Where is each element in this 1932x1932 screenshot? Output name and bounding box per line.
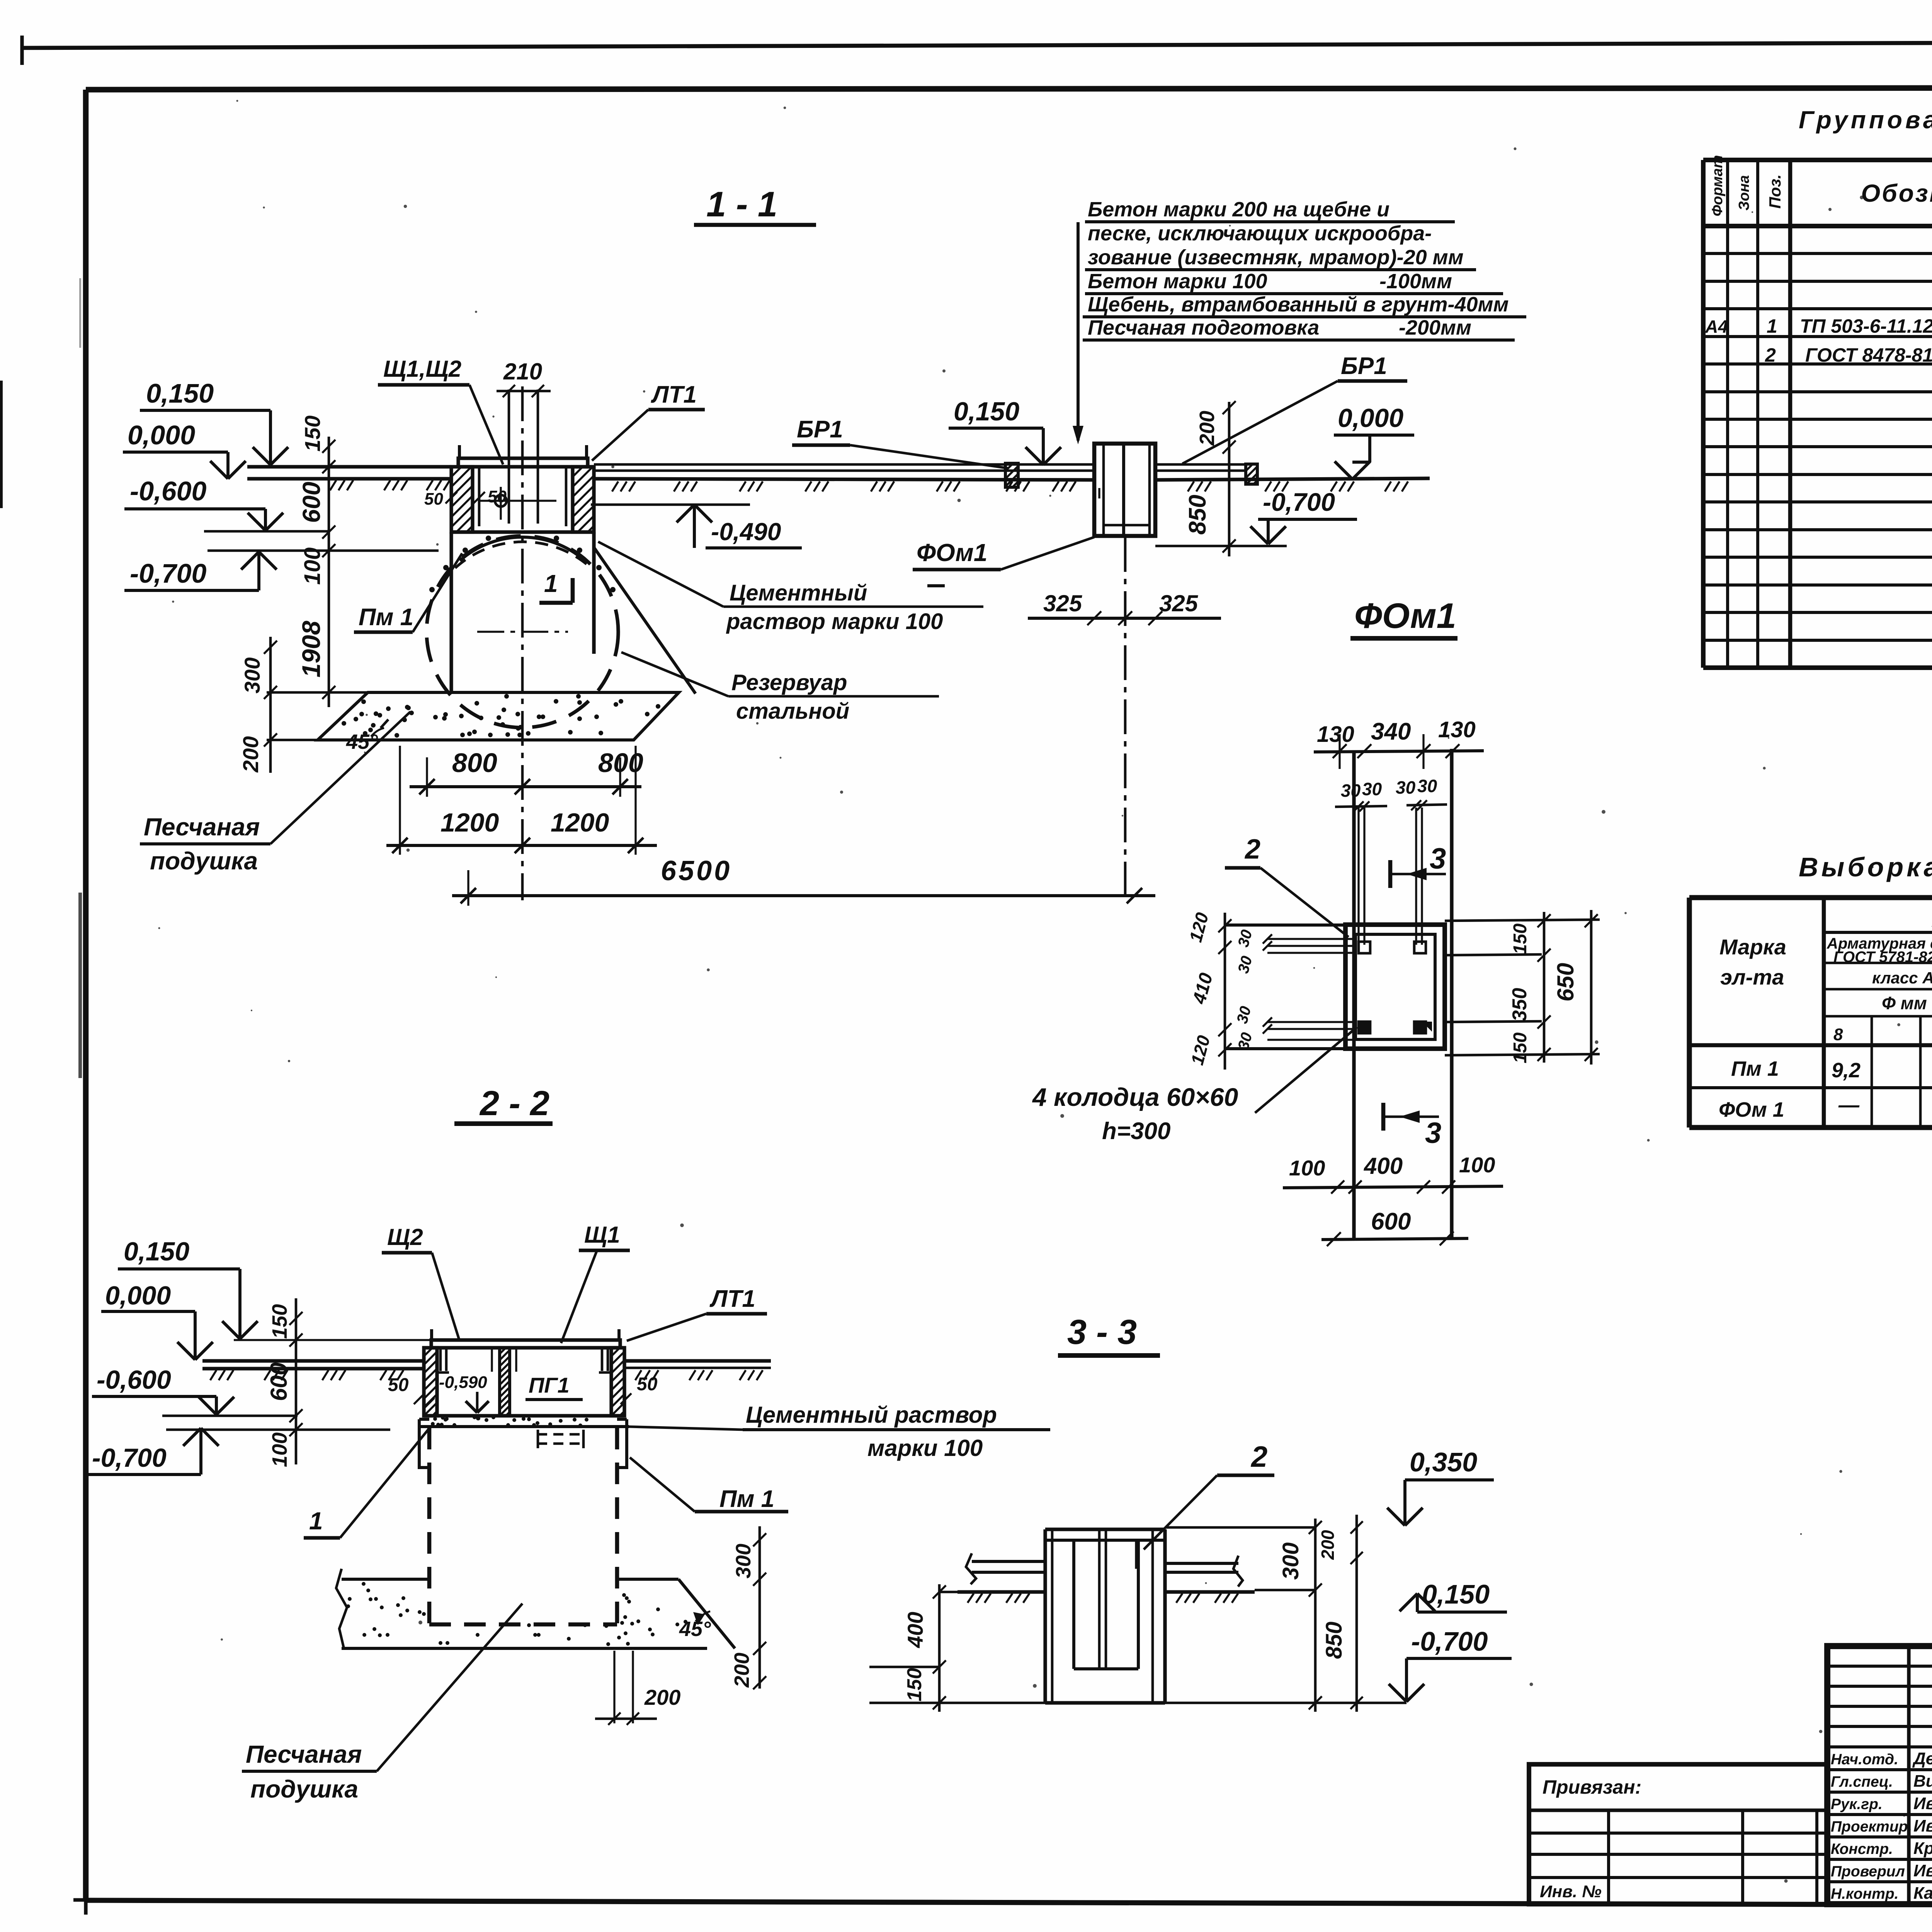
- svg-text:600: 600: [1371, 1208, 1411, 1235]
- svg-text:ТП 503-6-11.12.88: ТП 503-6-11.12.88: [1800, 315, 1932, 337]
- svg-text:6500: 6500: [661, 855, 732, 886]
- svg-text:4 колодца 60×60: 4 колодца 60×60: [1032, 1083, 1238, 1111]
- svg-text:ПГ1: ПГ1: [529, 1373, 570, 1397]
- svg-text:БР1: БР1: [797, 416, 843, 443]
- svg-text:650: 650: [1553, 963, 1578, 1002]
- svg-text:Иванова: Иванова: [1913, 1794, 1932, 1813]
- svg-text:200: 200: [730, 1653, 753, 1688]
- svg-text:150: 150: [903, 1668, 926, 1702]
- svg-text:100: 100: [1459, 1153, 1495, 1177]
- svg-text:600: 600: [298, 482, 325, 523]
- svg-text:0,000: 0,000: [105, 1281, 171, 1310]
- svg-text:ФОм1: ФОм1: [1354, 596, 1456, 636]
- svg-text:30: 30: [1396, 777, 1416, 798]
- svg-text:3: 3: [1425, 1117, 1441, 1150]
- svg-text:ФОм1: ФОм1: [917, 539, 987, 566]
- svg-text:100: 100: [1289, 1156, 1325, 1180]
- svg-text:1: 1: [1767, 315, 1777, 337]
- svg-text:130: 130: [1438, 717, 1476, 742]
- svg-text:0,000: 0,000: [1338, 403, 1403, 433]
- svg-text:210: 210: [503, 359, 542, 384]
- svg-text:подушка: подушка: [150, 847, 258, 875]
- svg-text:класс АI: класс АI: [1872, 969, 1932, 987]
- svg-text:130: 130: [1317, 722, 1354, 747]
- svg-text:зование (известняк, мрамор)-20: зование (известняк, мрамор)-20 мм: [1088, 246, 1464, 269]
- svg-text:150: 150: [1510, 923, 1531, 954]
- svg-text:-0,590: -0,590: [439, 1373, 487, 1392]
- svg-text:2 - 2: 2 - 2: [479, 1084, 549, 1123]
- svg-text:300: 300: [1278, 1543, 1303, 1580]
- svg-text:850: 850: [1321, 1622, 1347, 1659]
- svg-text:1200: 1200: [440, 808, 499, 837]
- svg-text:Обозначение: Обозначение: [1861, 179, 1932, 207]
- svg-text:1 - 1: 1 - 1: [706, 185, 777, 224]
- svg-text:1908: 1908: [297, 621, 325, 677]
- svg-text:1: 1: [544, 570, 558, 597]
- svg-text:-0,700: -0,700: [92, 1443, 167, 1473]
- svg-text:Пм 1: Пм 1: [1731, 1057, 1779, 1080]
- svg-text:300: 300: [240, 657, 264, 693]
- svg-text:Песчаная подготовка: Песчаная подготовка: [1088, 316, 1319, 339]
- svg-text:30: 30: [1417, 776, 1437, 796]
- svg-text:-0,700: -0,700: [130, 558, 207, 588]
- svg-text:Песчаная: Песчаная: [144, 813, 260, 841]
- svg-text:ФОм 1: ФОм 1: [1719, 1098, 1784, 1121]
- svg-text:Иванова: Иванова: [1913, 1861, 1932, 1880]
- svg-text:Щебень, втрамбованный в грунт-: Щебень, втрамбованный в грунт-40мм: [1088, 293, 1509, 316]
- svg-text:9,2: 9,2: [1832, 1059, 1861, 1082]
- svg-text:0,350: 0,350: [1410, 1447, 1477, 1477]
- svg-text:-100мм: -100мм: [1379, 270, 1452, 293]
- svg-text:325: 325: [1159, 590, 1199, 616]
- svg-text:подушка: подушка: [250, 1775, 358, 1803]
- svg-text:Цементный: Цементный: [730, 580, 867, 605]
- svg-text:Иванова: Иванова: [1913, 1816, 1932, 1835]
- svg-text:А4: А4: [1705, 316, 1728, 337]
- svg-text:-0,700: -0,700: [1263, 488, 1335, 516]
- svg-text:Формат: Формат: [1709, 155, 1726, 216]
- svg-text:Зона: Зона: [1736, 175, 1752, 211]
- svg-text:2: 2: [1250, 1440, 1267, 1473]
- svg-text:340: 340: [1371, 718, 1411, 745]
- svg-text:150: 150: [268, 1304, 291, 1339]
- svg-text:100: 100: [300, 548, 325, 585]
- svg-text:150: 150: [300, 415, 325, 451]
- svg-text:Привязан:: Привязан:: [1543, 1776, 1641, 1798]
- svg-text:850: 850: [1184, 495, 1211, 534]
- svg-text:Пм 1: Пм 1: [359, 604, 413, 631]
- svg-text:800: 800: [452, 748, 497, 778]
- svg-text:300: 300: [732, 1544, 755, 1578]
- svg-text:Вишняков: Вишняков: [1913, 1772, 1932, 1791]
- svg-text:Марка: Марка: [1719, 935, 1786, 959]
- svg-text:Щ1,Щ2: Щ1,Щ2: [383, 356, 461, 382]
- svg-text:стальной: стальной: [736, 699, 849, 724]
- svg-text:ЛТ1: ЛТ1: [709, 1286, 755, 1312]
- svg-text:0,000: 0,000: [128, 420, 195, 450]
- svg-text:Групповая спецификация для: Групповая спецификация для монолитных эл…: [1799, 106, 1932, 134]
- svg-text:Кадовб: Кадовб: [1913, 1884, 1932, 1903]
- svg-text:Рук.гр.: Рук.гр.: [1831, 1796, 1883, 1813]
- svg-text:50: 50: [637, 1374, 658, 1395]
- svg-text:0,150: 0,150: [954, 397, 1019, 426]
- svg-text:ГОСТ 5781-82: ГОСТ 5781-82: [1833, 949, 1932, 966]
- svg-text:Поз.: Поз.: [1766, 174, 1784, 209]
- svg-text:50: 50: [424, 490, 443, 509]
- svg-text:Цементный раствор: Цементный раствор: [746, 1402, 997, 1428]
- svg-text:h=300: h=300: [1102, 1118, 1171, 1145]
- svg-text:30: 30: [1341, 781, 1361, 801]
- svg-text:3: 3: [1430, 842, 1446, 875]
- svg-text:Инв. №: Инв. №: [1540, 1882, 1602, 1901]
- svg-text:-200мм: -200мм: [1399, 316, 1471, 339]
- svg-text:200: 200: [1196, 411, 1219, 446]
- svg-text:0,150: 0,150: [1422, 1579, 1490, 1609]
- svg-text:Н.контр.: Н.контр.: [1831, 1886, 1898, 1902]
- svg-text:100: 100: [268, 1432, 291, 1467]
- svg-text:0,150: 0,150: [146, 378, 214, 408]
- svg-text:Ф мм: Ф мм: [1882, 993, 1927, 1013]
- svg-text:Проверил: Проверил: [1831, 1863, 1905, 1880]
- svg-text:ЛТ1: ЛТ1: [651, 381, 697, 408]
- svg-text:Бетон марки 200 на щебне и: Бетон марки 200 на щебне и: [1088, 198, 1389, 221]
- svg-text:30: 30: [1362, 779, 1382, 799]
- svg-text:БР1: БР1: [1341, 353, 1387, 379]
- svg-text:-0,600: -0,600: [130, 476, 207, 506]
- svg-text:200: 200: [644, 1685, 680, 1709]
- svg-text:-0,600: -0,600: [97, 1365, 171, 1395]
- svg-text:Кришталь: Кришталь: [1913, 1839, 1932, 1858]
- svg-text:1: 1: [309, 1507, 323, 1535]
- svg-text:200: 200: [238, 736, 263, 772]
- svg-text:400: 400: [1364, 1153, 1403, 1179]
- svg-text:—: —: [1838, 1094, 1860, 1117]
- svg-text:350: 350: [1509, 988, 1531, 1022]
- svg-text:150: 150: [1510, 1032, 1531, 1063]
- svg-text:Бетон марки 100: Бетон марки 100: [1088, 270, 1267, 293]
- svg-text:Деев: Деев: [1912, 1749, 1932, 1768]
- svg-text:Выборка стали на один элем: Выборка стали на один элемент, кг: [1799, 852, 1932, 882]
- svg-text:Проектир.: Проектир.: [1831, 1818, 1912, 1835]
- svg-text:раствор марки 100: раствор марки 100: [726, 609, 943, 634]
- svg-text:3 - 3: 3 - 3: [1067, 1313, 1137, 1352]
- svg-text:Резервуар: Резервуар: [731, 670, 847, 695]
- svg-text:50: 50: [488, 487, 507, 506]
- svg-text:Песчаная: Песчаная: [246, 1740, 362, 1768]
- svg-text:Пм 1: Пм 1: [719, 1486, 774, 1512]
- svg-text:Нач.отд.: Нач.отд.: [1831, 1751, 1898, 1768]
- svg-text:-0,490: -0,490: [711, 518, 781, 546]
- svg-text:1200: 1200: [551, 808, 609, 837]
- svg-text:ГОСТ 8478-81: ГОСТ 8478-81: [1805, 344, 1932, 366]
- svg-text:Щ1: Щ1: [584, 1222, 620, 1248]
- svg-text:8: 8: [1833, 1025, 1843, 1044]
- svg-text:песке, исключающих искрообра-: песке, исключающих искрообра-: [1088, 222, 1432, 245]
- svg-text:50: 50: [388, 1375, 409, 1395]
- svg-text:200: 200: [1318, 1530, 1338, 1560]
- svg-text:45°: 45°: [679, 1617, 711, 1641]
- svg-text:Щ2: Щ2: [387, 1224, 423, 1250]
- svg-text:-0,700: -0,700: [1411, 1626, 1488, 1656]
- svg-text:эл-та: эл-та: [1720, 965, 1784, 989]
- svg-text:0,150: 0,150: [124, 1237, 189, 1266]
- svg-text:325: 325: [1043, 590, 1083, 616]
- svg-text:400: 400: [903, 1612, 927, 1648]
- svg-text:2: 2: [1244, 834, 1260, 865]
- svg-text:Констр.: Констр.: [1831, 1841, 1893, 1857]
- svg-text:Гл.спец.: Гл.спец.: [1831, 1774, 1893, 1790]
- svg-text:марки 100: марки 100: [867, 1435, 983, 1461]
- svg-text:2: 2: [1765, 344, 1776, 366]
